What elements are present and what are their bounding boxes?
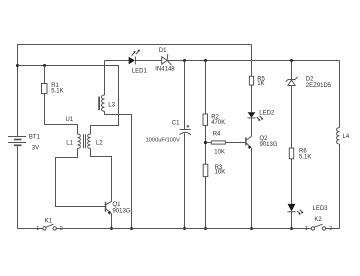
resistor R4 [211,141,225,144]
svg-text:BT1: BT1 [29,135,41,141]
wire L4 bottom lead [339,144,341,229]
svg-text:K1: K1 [45,218,53,224]
svg-text:2EZ91D5: 2EZ91D5 [306,83,332,89]
svg-text:D2: D2 [306,77,314,83]
node D2 top junction [290,59,293,62]
LED LED3 [287,204,303,215]
svg-text:1K: 1K [257,81,264,87]
svg-text:L2: L2 [96,140,103,146]
resistor R3 [203,164,208,176]
node battery top junction [16,64,19,67]
wire C1 top lead [184,61,186,130]
wire R6 bottom to LED3 [291,159,293,204]
label U1 [66,117,74,123]
svg-text:R4: R4 [213,132,221,138]
svg-text:5.1K: 5.1K [299,154,311,160]
wire L4 top lead [339,61,341,128]
wire second rail to transformer top [18,66,119,135]
wire R2 bottom to R3 top [205,125,207,164]
label LED3 [313,206,329,212]
wire LED3 to ground rail [291,212,293,229]
switch K2 [311,224,326,230]
svg-text:10K: 10K [214,149,225,155]
wire battery positive vertical [17,44,19,136]
diode D1 [162,54,172,65]
svg-text:L1: L1 [66,140,73,146]
resistor R1 [42,84,48,94]
node LED3 ground junction [290,227,293,230]
wire ground rail right segment [326,228,340,230]
svg-text:470K: 470K [211,120,225,126]
node L3 return rail junction [130,227,133,230]
svg-text:2: 2 [60,226,63,232]
label R3 value [215,165,226,175]
label L1 [66,140,73,146]
wire R2 top lead [205,61,207,115]
label LED2 [259,111,275,117]
label R6 value [299,149,311,161]
LED LED2 [247,112,263,121]
node Q1 emitter rail junction [110,227,113,230]
wire top rail [18,44,252,46]
wire ground rail middle segment [56,228,311,230]
wire R1 top lead [44,66,46,84]
resistor R6 [289,148,293,159]
svg-text:LED2: LED2 [259,111,275,117]
node R1 top junction [43,64,46,67]
svg-text:5.1K: 5.1K [51,89,63,95]
label D2 [306,77,332,89]
node C1 ground junction [183,227,186,230]
svg-text:10K: 10K [215,169,226,175]
label BT1 [29,135,41,152]
wire Q2 emitter to ground rail [251,148,253,228]
wire L1 bottom to Q1 base [56,149,106,207]
svg-text:2: 2 [329,226,332,232]
switch K1 [43,224,57,230]
label R1 value [51,83,63,94]
transistor Q2 [246,136,252,149]
svg-text:Q1: Q1 [113,202,122,208]
wire L3 top to LED1 anode [105,60,129,62]
wire battery negative lead [17,146,19,228]
wire R4 to Q2 base [225,142,245,144]
wire R3 bottom lead [205,177,207,229]
wire ground rail left segment [18,228,43,230]
svg-text:L3: L3 [108,102,115,108]
svg-text:D1: D1 [159,48,167,54]
wire LED1 to D1 [135,60,161,62]
svg-text:1: 1 [305,226,308,232]
label C1 [146,121,181,144]
label Q2 [260,136,278,148]
svg-text:1: 1 [36,226,39,232]
node R3 ground junction [204,227,207,230]
svg-text:LED1: LED1 [132,68,148,74]
label R2 value [211,114,225,125]
LED LED1 [129,50,140,65]
capacitor C1 [180,125,191,135]
inductor L3 [102,95,105,111]
label L4 [343,134,350,140]
svg-text:9013G: 9013G [113,209,131,215]
label R4 [213,132,225,156]
zener diode D2 [286,77,298,86]
label D1 [155,48,175,72]
label K1 [36,218,63,232]
svg-text:IN4148: IN4148 [155,66,175,72]
resistor R5 [249,76,253,85]
wire D2 top lead [291,61,293,80]
wire D2 anode to R6 [291,86,293,149]
svg-text:9013G: 9013G [260,142,278,148]
label L2 [96,140,103,146]
node R2 top junction [204,59,207,62]
node C1 top junction [183,59,186,62]
battery BT1 [8,137,26,146]
node R4 junction [204,141,207,144]
svg-text:K2: K2 [314,217,322,223]
svg-text:U1: U1 [66,117,74,123]
label LED1 [132,68,148,74]
transformer U1 winding L1 [78,134,81,149]
label Q1 [113,202,131,214]
svg-text:L4: L4 [343,134,350,140]
wire R5 bottom to LED2 [251,85,253,112]
inductor L4 [337,128,340,144]
wire L2 bottom to Q1 collector [91,149,112,202]
wire C1 bottom lead [184,133,186,228]
wire L3 bottom to ground rail [105,111,132,228]
wire R1 bottom to L1 top [45,94,78,135]
label L3 [108,102,115,108]
resistor R2 [203,114,208,125]
label K2 [305,217,332,232]
svg-text:Q2: Q2 [260,136,269,142]
transformer U1 winding L2 [88,134,91,149]
wire D1 cathode east rail [167,60,339,62]
transistor Q1 [106,201,112,215]
svg-text:LED3: LED3 [313,206,329,212]
svg-text:C1: C1 [172,121,180,127]
wire top rail corner down to R5 [251,45,253,77]
wire Q1 emitter to ground rail [111,214,113,229]
transformer U1 core [84,134,86,148]
label R5 value [257,76,265,87]
wire LED2 to Q2 collector [251,118,253,136]
node Q2 emitter ground junction [250,227,253,230]
inductor L3 top lead [104,61,106,96]
inductor L3 core [98,97,100,111]
svg-text:1000uF/100V: 1000uF/100V [146,137,180,143]
svg-text:3V: 3V [32,146,39,152]
wire R4 left lead [206,142,212,144]
